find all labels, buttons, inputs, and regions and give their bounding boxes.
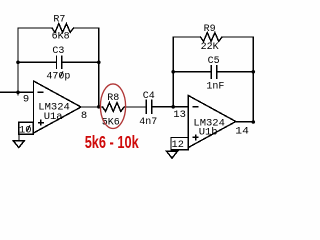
svg-text:C4: C4: [143, 91, 155, 102]
svg-text:1nF: 1nF: [206, 82, 224, 93]
wire U1a output row: [81, 106, 103, 108]
wire R7 row right segment: [74, 27, 99, 29]
node C5 right: [252, 70, 256, 74]
svg-text:13: 13: [173, 109, 186, 121]
wire pin 10 to ground: [18, 134, 20, 141]
annotation red ellipse around R8: [100, 84, 125, 129]
wire C5 row right: [217, 71, 253, 73]
op-amp U1b plus mark: [193, 135, 198, 140]
wire pin 12 to ground: [170, 150, 172, 151]
svg-text:8: 8: [81, 110, 87, 122]
resistor R8: [103, 103, 125, 112]
op-amp U1b triangle: [188, 96, 236, 148]
wire left feedback vertical U1a: [17, 28, 19, 95]
wire right feedback vertical U1b: [252, 37, 254, 122]
wire pin 9 input: [0, 91, 34, 93]
node C3 right: [97, 61, 101, 65]
svg-text:4n7: 4n7: [139, 117, 157, 128]
wire R9 row left segment: [173, 36, 200, 38]
capacitor C5 plates: [210, 66, 212, 79]
node C5 left: [171, 70, 175, 74]
ground U1a: [13, 141, 24, 148]
svg-text:5k6 - 10k: 5k6 - 10k: [85, 132, 139, 152]
node pin 9 junction: [16, 91, 20, 95]
svg-text:9: 9: [23, 93, 29, 105]
wire C3 row right: [62, 61, 99, 63]
node U1b output: [252, 120, 256, 124]
op-amp U1a plus mark: [39, 120, 44, 125]
svg-text:R7: R7: [53, 15, 65, 26]
resistor R9: [201, 33, 223, 42]
resistor R7: [52, 24, 74, 33]
wire right feedback vertical U1a: [98, 28, 100, 107]
wire C4 to pin 13: [152, 106, 189, 108]
svg-text:R9: R9: [204, 24, 216, 35]
wire U1b output: [236, 121, 254, 123]
wire R7 row left segment: [18, 27, 52, 29]
wire C3 row left: [18, 61, 57, 63]
svg-text:6K8: 6K8: [52, 31, 70, 42]
svg-text:U1b: U1b: [199, 127, 218, 139]
svg-text:C5: C5: [208, 56, 220, 67]
op-amp U1a minus mark: [38, 91, 43, 93]
svg-text:12: 12: [172, 139, 184, 151]
svg-text:22K: 22K: [201, 42, 219, 53]
slash of zero in pin 10: [27, 125, 30, 131]
node U1a output: [97, 105, 101, 109]
op-amp U1a triangle: [34, 81, 82, 133]
wire left feedback vertical U1b: [172, 37, 174, 107]
svg-text:U1a: U1a: [44, 111, 63, 123]
capacitor C4 plates: [145, 100, 147, 114]
slash of zero in 470p: [60, 71, 63, 77]
ground U1b: [167, 151, 178, 158]
svg-text:470p: 470p: [46, 71, 70, 82]
capacitor C3 plates: [56, 56, 58, 69]
node pin 13 junction: [171, 105, 175, 109]
wire R8 to C4: [124, 106, 146, 108]
pin 12 box: [171, 138, 188, 150]
svg-text:C3: C3: [52, 46, 64, 57]
node C3 left: [16, 61, 20, 65]
wire C5 row left: [173, 71, 211, 73]
wire R9 row right segment: [222, 36, 253, 38]
svg-text:14: 14: [235, 126, 249, 138]
svg-text:R8: R8: [107, 93, 119, 104]
op-amp U1b minus mark: [193, 106, 198, 108]
pin 10 box: [19, 122, 34, 134]
